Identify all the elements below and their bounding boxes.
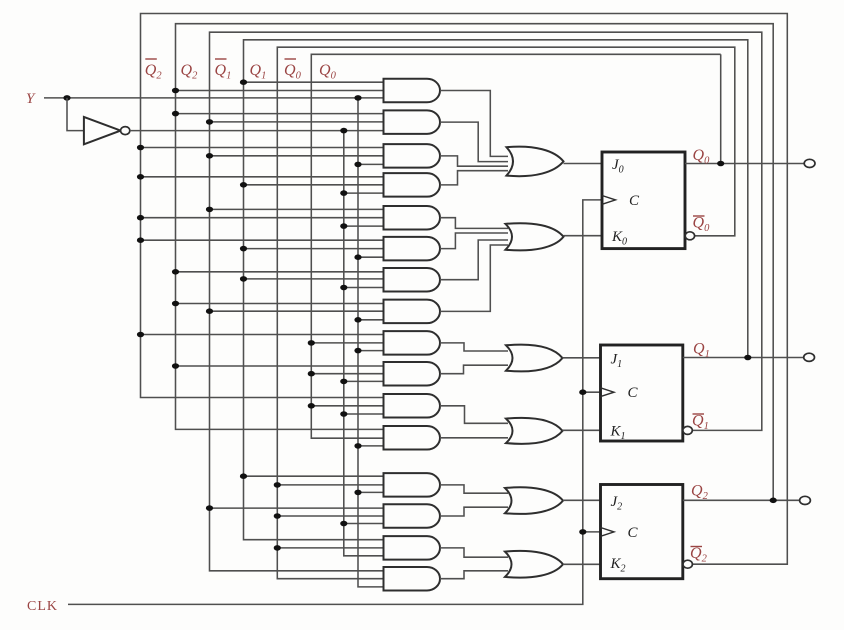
svg-text:C: C [628, 525, 639, 541]
wire and junction: A11 bot from Ybar [344, 413, 384, 415]
svg-text:Q1: Q1 [215, 62, 232, 82]
wire and junction: A13 mid from Qbar0 [277, 484, 383, 486]
AND gate A15 [384, 536, 441, 560]
wire and junction: A13 top from Q1 [244, 475, 384, 477]
wire: Y vertical distribution [358, 98, 384, 587]
clock chevron of U3 (JK FF2) [601, 528, 615, 537]
wire: Qbar1 feedback (FF1 Qbar up and across top, down left bus) [210, 32, 762, 571]
wire: AND A6 output to OR input [440, 233, 508, 249]
wire and junction: A3 bot from Y [358, 163, 384, 165]
wire and junction: A4 mid from Q1 [244, 184, 384, 186]
OR gate OR1 (J0) [507, 147, 564, 177]
wire: Q0 feedback (FF0 Q up and across top, down left bus) [311, 54, 720, 438]
wire: OR4 to K1 [563, 429, 601, 431]
wire: Ybar vertical distribution [344, 131, 384, 556]
svg-text:CLK: CLK [27, 599, 58, 614]
svg-text:Q0: Q0 [693, 215, 711, 235]
OR gate OR4 (K1) [506, 418, 563, 444]
svg-text:Y: Y [26, 91, 36, 107]
junction: Y input branch to inverter [63, 95, 70, 101]
wire: Ybar from inverter to AND A2 [130, 130, 384, 132]
wire and junction: A7 bot from Ybar [344, 287, 384, 289]
svg-text:Q0: Q0 [319, 62, 337, 82]
svg-text:Q0: Q0 [693, 147, 711, 167]
wire: OR1 to J0 [564, 163, 603, 165]
wire: AND A3 output to OR input [440, 156, 508, 166]
wire: AND A12 output to OR input [440, 437, 508, 439]
junction: Q0 feedback [717, 161, 724, 167]
wire: clock stub to FF2 C [583, 531, 601, 533]
wire and junction: A12 bot from Y [358, 445, 384, 447]
wire and junction: A1 mid from Q2 [176, 90, 384, 92]
junction: clock at FF1 [579, 389, 586, 395]
wire: AND A8 output to OR input [440, 245, 508, 311]
wire and junction: A6 mid from Q1 [244, 248, 384, 250]
wire and junction: A2 top from Q2 [176, 113, 384, 115]
wire and junction: A10 bot from Ybar [344, 380, 384, 382]
flip-flop U2 (JK FF1) box [601, 345, 683, 441]
wire: Qbar0 feedback (FF0 Qbar up and across top, down left bus) [277, 47, 735, 579]
bubble: Qbar0 on U1 [685, 232, 694, 240]
wire: AND A11 output to OR input [440, 406, 508, 424]
wire: Y to inverter input [67, 98, 84, 131]
wire and junction: A5 bot from Ybar [344, 225, 384, 227]
wire: OR6 to K2 [563, 563, 601, 565]
svg-text:Q1: Q1 [250, 62, 267, 82]
wire: AND A16 output to OR input [440, 571, 508, 579]
wire and junction: A9 top from Qbar2 [141, 334, 384, 336]
wire: Q1 output to terminal [683, 357, 804, 359]
svg-text:Q0: Q0 [284, 62, 302, 82]
wire and junction: A3 mid from Qbar1 [210, 155, 384, 157]
AND gate A14 [384, 504, 440, 528]
OR gate OR3 (J1) [506, 345, 563, 372]
wire: Q1 feedback (FF1 Q up and across top, down left bus) [244, 40, 748, 540]
wire: AND A14 output to OR input [440, 507, 508, 516]
wire and junction: A5 top from Qbar1 [210, 208, 384, 210]
AND gate A3 [384, 144, 441, 168]
wire: Q0 output to terminal [685, 163, 804, 165]
svg-text:C: C [628, 385, 639, 401]
svg-text:Q2: Q2 [690, 545, 708, 565]
wire and junction: A4 top from Qbar2 [141, 176, 384, 178]
wire and junction: A11 mid from Q0 [311, 405, 383, 407]
AND gate A11 [384, 394, 441, 418]
clock chevron of U1 (JK FF0) [602, 196, 616, 205]
wire: clock stub to FF1 C [583, 391, 601, 393]
wire and junction: A6 bot from Y [358, 256, 384, 258]
terminal: Q1 output [804, 353, 815, 361]
wire: OR3 to J1 [563, 357, 601, 359]
AND gate A8 [384, 300, 441, 324]
wire: AND A9 output to OR input [440, 343, 508, 351]
wire and junction: A7 mid from Q1 [244, 278, 384, 280]
wire and junction: A9 mid from Q0 [311, 342, 383, 344]
junction: clock at FF2 [579, 529, 586, 535]
junction: Ybar vertical tap [340, 128, 347, 134]
OR gate OR5 (J2) [505, 487, 563, 514]
terminal: Q0 output [804, 159, 815, 167]
wire: AND A15 output to OR input [440, 548, 508, 557]
wire and junction: A8 mid from Qbar1 [210, 310, 384, 312]
svg-text:Q1: Q1 [693, 341, 710, 361]
flip-flop U1 (JK FF0) box [602, 152, 685, 249]
AND gate A13 [384, 473, 441, 497]
AND gate A9 [384, 331, 441, 355]
wire and junction: A1 top from Q1 [244, 81, 384, 83]
wire: AND A4 output to OR input [440, 171, 508, 185]
wire: OR2 to K0 [564, 235, 603, 237]
OR gate OR2 (K0) [506, 223, 564, 250]
wire: Qbar2 feedback (FF2 Qbar up and across top, down left bus) [141, 14, 788, 565]
wire: Q2 feedback (FF2 Q up and across top, down left bus) [176, 24, 774, 501]
wire and junction: A10 top from Q2 [176, 365, 384, 367]
wire: AND A5 output to OR input [440, 218, 508, 229]
AND gate A2 [384, 110, 441, 134]
AND gate A1 [384, 79, 441, 103]
terminal: Q2 output [800, 496, 811, 504]
wire: OR5 to J2 [563, 499, 601, 501]
inverter (NOT gate) on Y [84, 117, 121, 144]
AND gate A5 [384, 206, 441, 230]
junction: Y vertical tap [354, 95, 361, 101]
wire and junction: A14 bot from Ybar [344, 523, 384, 525]
wire and junction: A8 bot from Y [358, 319, 384, 321]
node CLK: clock line from label to flip-flop column [68, 200, 602, 605]
OR gate OR6 (K2) [505, 551, 563, 578]
AND gate A4 [384, 173, 441, 197]
flip-flop U3 (JK FF2) box [601, 485, 683, 579]
wire and junction: A14 mid from Qbar0 [277, 515, 383, 517]
wire and junction: A10 mid from Q0 [311, 373, 383, 375]
AND gate A16 [384, 567, 441, 591]
wire: Q2 output to terminal [683, 499, 800, 501]
wire and junction: A3 top from Qbar2 [141, 147, 384, 149]
AND gate A10 [384, 362, 441, 386]
svg-text:Q2: Q2 [181, 62, 199, 82]
wire and junction: A15 mid from Qbar0 [277, 547, 383, 549]
wire and junction: A5 mid from Qbar2 [141, 217, 384, 219]
bubble: Qbar1 on U2 [683, 426, 692, 434]
wire and junction: A14 top from Qbar1 [210, 507, 384, 509]
wire: AND A10 output to OR input [440, 365, 508, 374]
wire and junction: A2 mid from Qbar1 [210, 121, 384, 123]
svg-text:C: C [629, 193, 640, 209]
wire: AND A2 output to OR input [440, 122, 508, 162]
junction: Q1 feedback [744, 355, 751, 361]
svg-text:Q1: Q1 [692, 413, 709, 433]
wire: AND A1 output to OR input [440, 91, 508, 157]
AND gate A12 [384, 426, 441, 450]
AND gate A7 [384, 268, 441, 292]
wire and junction: A8 top from Q2 [176, 303, 384, 305]
wire and junction: A7 top from Q2 [176, 271, 384, 273]
wire and junction: A13 bot from Y [358, 491, 384, 493]
wire: AND A7 output to OR input [440, 240, 508, 280]
clock chevron of U2 (JK FF1) [601, 388, 615, 397]
node Y: input wire [44, 97, 384, 99]
junction: Q2 feedback [770, 498, 777, 504]
bubble: Qbar2 on U3 [683, 560, 692, 568]
svg-text:Q2: Q2 [145, 62, 163, 82]
svg-text:Q2: Q2 [691, 483, 709, 503]
wire and junction: A9 bot from Y [358, 350, 384, 352]
wire and junction: A4 bot from Ybar [344, 192, 384, 194]
wire: AND A13 output to OR input [440, 485, 508, 493]
AND gate A6 [384, 237, 441, 261]
wire and junction: A6 top from Qbar2 [141, 239, 384, 241]
